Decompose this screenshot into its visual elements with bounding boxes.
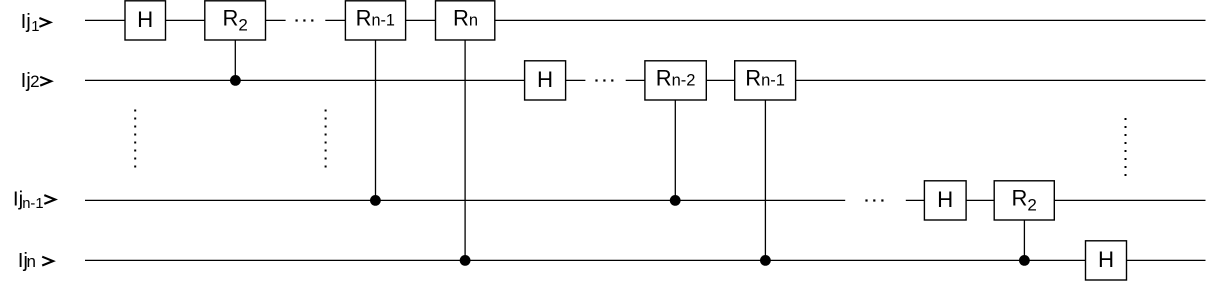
svg-text:Ij: Ij: [21, 10, 31, 33]
svg-text:2: 2: [30, 72, 39, 91]
svg-text:H: H: [1098, 247, 1114, 272]
svg-text:H: H: [537, 67, 553, 92]
svg-text:H: H: [937, 187, 953, 212]
svg-text:1: 1: [31, 19, 39, 35]
svg-text:n: n: [27, 252, 36, 271]
svg-text:n-1: n-1: [22, 196, 43, 212]
svg-text:H: H: [137, 7, 153, 32]
